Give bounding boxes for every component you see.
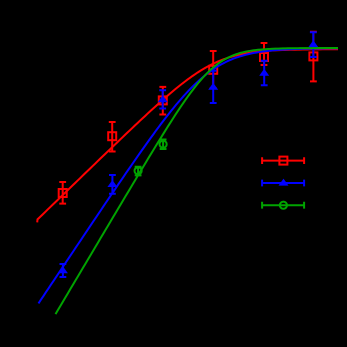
blue triangle point 2 (107, 180, 117, 187)
red square point 6 (309, 52, 317, 60)
red error bar 5 (261, 43, 268, 65)
red error bar 1 (59, 182, 66, 204)
red square point 5 (260, 53, 268, 61)
blue triangle point 6 (308, 40, 318, 47)
blue triangle point 1 (58, 266, 68, 273)
blue error bar 2 (109, 175, 116, 194)
red error bar 3 (159, 87, 166, 115)
green error bar 1 (135, 167, 142, 176)
red error bar 2 (109, 122, 116, 152)
red square point 4 (209, 66, 217, 74)
blue triangle point 3 (158, 95, 168, 102)
red square point 2 (108, 132, 116, 140)
legend blue errorbar sample (262, 180, 304, 187)
blue error bar 4 (210, 71, 217, 103)
green circle point 2 (160, 141, 167, 148)
green fit curve (56, 48, 339, 314)
red error bar 6 (310, 32, 317, 82)
green error bar 2 (160, 140, 167, 150)
red square point 3 (159, 96, 167, 104)
legend green errorbar sample (262, 202, 304, 209)
blue triangle point 4 (208, 83, 218, 90)
red error bar 4 (210, 51, 217, 88)
green circle point 1 (135, 167, 142, 174)
red square point 1 (59, 189, 67, 197)
blue error bar 5 (261, 61, 268, 85)
red fit curve (37, 49, 338, 222)
blue error bar 6 (310, 32, 317, 57)
blue error bar 3 (159, 90, 166, 108)
legend red errorbar sample (262, 157, 304, 164)
blue triangle point 5 (259, 69, 269, 76)
blue fit curve (39, 48, 339, 303)
blue error bar 1 (60, 264, 67, 277)
